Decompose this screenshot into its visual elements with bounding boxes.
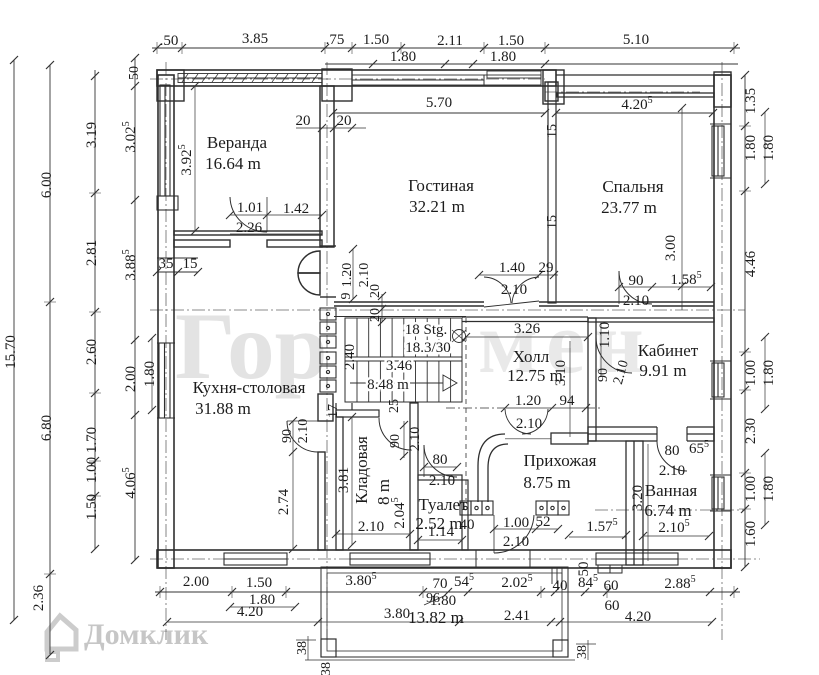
window office right bbox=[710, 361, 731, 399]
svg-text:35: 35 bbox=[159, 256, 174, 272]
svg-text:15: 15 bbox=[545, 215, 560, 229]
wall top right wing bbox=[556, 75, 731, 86]
svg-text:40: 40 bbox=[460, 517, 475, 533]
svg-text:9: 9 bbox=[339, 293, 354, 300]
svg-text:2.00: 2.00 bbox=[183, 574, 209, 590]
svg-text:80: 80 bbox=[665, 443, 680, 459]
wall divider veranda-living x=320 bbox=[320, 86, 334, 247]
svg-text:1.42: 1.42 bbox=[283, 201, 309, 217]
svg-text:2.10: 2.10 bbox=[623, 293, 649, 309]
dim line hall 3.26 bbox=[466, 336, 588, 338]
svg-text:2.40: 2.40 bbox=[342, 344, 358, 370]
svg-text:1.80: 1.80 bbox=[390, 49, 416, 65]
svg-text:90: 90 bbox=[388, 434, 403, 448]
toilet-pantry east wall bbox=[410, 403, 418, 550]
svg-text:Кухня-столовая: Кухня-столовая bbox=[193, 378, 306, 397]
svg-text:9.91 m: 9.91 m bbox=[639, 361, 686, 380]
svg-text:1.80: 1.80 bbox=[490, 49, 516, 65]
svg-text:3.46: 3.46 bbox=[386, 358, 413, 374]
svg-text:Кладовая: Кладовая bbox=[352, 436, 371, 504]
window bottom mid bbox=[350, 553, 430, 565]
dim line kitchen door bbox=[292, 421, 294, 452]
post top wall20 bbox=[322, 69, 352, 101]
axis dashdot wall20 bbox=[326, 62, 328, 640]
dim line pantry 3.81 bbox=[351, 417, 353, 545]
svg-text:Холл: Холл bbox=[513, 347, 550, 366]
svg-text:60: 60 bbox=[604, 578, 619, 594]
svg-text:20: 20 bbox=[337, 113, 352, 129]
dim line right col1 bbox=[744, 75, 746, 567]
svg-text:3.80: 3.80 bbox=[384, 606, 410, 622]
svg-text:2.10: 2.10 bbox=[503, 534, 529, 550]
axis dashdot right wall bbox=[721, 62, 723, 640]
hallway-vestibule boxes row1 bbox=[460, 501, 493, 515]
svg-text:2.10: 2.10 bbox=[429, 473, 455, 489]
svg-text:52: 52 bbox=[536, 514, 551, 530]
door office arc bbox=[596, 337, 632, 373]
dim line veranda door 2.26 bbox=[230, 233, 322, 235]
svg-text:2.81: 2.81 bbox=[84, 240, 100, 266]
svg-text:70: 70 bbox=[433, 576, 448, 592]
office west wall bbox=[588, 318, 596, 441]
post living-bedroom top bbox=[543, 70, 564, 104]
svg-text:90: 90 bbox=[629, 273, 644, 289]
svg-text:3.81: 3.81 bbox=[336, 467, 352, 493]
svg-text:2.10: 2.10 bbox=[659, 463, 685, 479]
watermark Gor bbox=[175, 293, 652, 399]
svg-text:1.80: 1.80 bbox=[743, 135, 759, 161]
svg-text:3.85: 3.85 bbox=[242, 31, 268, 47]
svg-text:50: 50 bbox=[127, 66, 142, 80]
svg-text:6.00: 6.00 bbox=[39, 172, 55, 198]
vestibule door bottom gap bbox=[476, 550, 530, 568]
svg-text:1.35: 1.35 bbox=[743, 88, 759, 114]
svg-text:2.10: 2.10 bbox=[516, 416, 542, 432]
dim ticks 20-20 top bbox=[296, 127, 366, 129]
dim line left col4 bbox=[134, 58, 136, 560]
svg-text:20: 20 bbox=[296, 113, 311, 129]
dim line hall 3.10 bbox=[569, 341, 571, 437]
svg-text:15: 15 bbox=[183, 256, 198, 272]
window kitchen left bbox=[157, 343, 175, 418]
dim line top row1 bbox=[152, 47, 740, 49]
axis dashdot left wall bbox=[165, 62, 167, 640]
window livingroom top band bbox=[352, 75, 484, 85]
hall top boundary bbox=[462, 317, 588, 322]
svg-text:1.10: 1.10 bbox=[597, 322, 613, 348]
svg-text:90: 90 bbox=[280, 429, 295, 443]
svg-text:1.00: 1.00 bbox=[84, 457, 100, 483]
svg-text:2.11: 2.11 bbox=[437, 33, 463, 49]
svg-text:Кабинет: Кабинет bbox=[638, 341, 699, 360]
window bath bottom bbox=[596, 553, 678, 565]
svg-text:4.20: 4.20 bbox=[625, 609, 651, 625]
svg-text:.75: .75 bbox=[326, 32, 345, 48]
svg-text:20: 20 bbox=[368, 308, 383, 322]
svg-text:2.00: 2.00 bbox=[123, 366, 139, 392]
svg-text:Гостиная: Гостиная bbox=[408, 176, 474, 195]
door bedroom arc bbox=[619, 271, 652, 304]
svg-text:1.80: 1.80 bbox=[761, 476, 777, 502]
svg-text:38: 38 bbox=[295, 641, 310, 655]
svg-text:Спальня: Спальня bbox=[602, 177, 663, 196]
svg-text:17: 17 bbox=[326, 404, 341, 418]
wall left outer bbox=[158, 75, 174, 568]
wall bedroom top bbox=[557, 93, 714, 97]
dim line bottom row3 bbox=[167, 621, 712, 623]
svg-text:18.3/30: 18.3/30 bbox=[405, 340, 450, 356]
pantry top stub + door bbox=[336, 403, 379, 417]
dim line vestibule 1.00-52 bbox=[494, 528, 558, 530]
svg-text:2.10: 2.10 bbox=[501, 282, 527, 298]
svg-text:1.80: 1.80 bbox=[142, 361, 158, 387]
svg-text:2.10: 2.10 bbox=[358, 519, 384, 535]
svg-text:3.20: 3.20 bbox=[630, 485, 646, 511]
hallway-vestibule boxes row2 bbox=[536, 501, 569, 515]
svg-text:31.88 m: 31.88 m bbox=[195, 399, 251, 418]
svg-text:1.50: 1.50 bbox=[84, 494, 100, 520]
svg-text:Ванная: Ванная bbox=[645, 481, 698, 500]
svg-text:13.82 m: 13.82 m bbox=[408, 608, 464, 627]
dim line hallway 1.575 bbox=[569, 536, 626, 538]
svg-text:96: 96 bbox=[426, 591, 440, 606]
axis dashdot horizontal mid bbox=[150, 309, 745, 311]
axis dashdot bottom wall bbox=[150, 558, 760, 560]
svg-text:Веранда: Веранда bbox=[207, 133, 268, 152]
svg-text:.50: .50 bbox=[160, 33, 179, 49]
svg-text:1.00: 1.00 bbox=[743, 360, 759, 386]
dim line office door bbox=[600, 322, 602, 377]
double door kitchen leaves bbox=[298, 251, 320, 295]
window veranda top band bbox=[178, 74, 322, 83]
toilet east wall bbox=[462, 480, 468, 550]
svg-text:1.20: 1.20 bbox=[515, 393, 541, 409]
stairs bbox=[345, 318, 466, 402]
window bath right bbox=[710, 475, 731, 511]
bath west wall bbox=[626, 441, 643, 565]
svg-text:4.46: 4.46 bbox=[743, 250, 759, 277]
svg-text:90: 90 bbox=[596, 368, 611, 382]
axis dashdot bath mid bbox=[595, 509, 745, 511]
toilet top wall bbox=[418, 475, 462, 480]
svg-text:38: 38 bbox=[319, 662, 334, 675]
svg-text:3.26: 3.26 bbox=[514, 321, 541, 337]
door toilet arc bbox=[424, 445, 457, 477]
dim line veranda 3.925 bbox=[194, 86, 196, 231]
wall stair west boxes bbox=[320, 308, 336, 392]
svg-text:1.00: 1.00 bbox=[743, 476, 759, 502]
step 35-15 left wall bbox=[153, 258, 202, 276]
wall kitchen east lower bbox=[318, 452, 325, 550]
svg-text:2.36: 2.36 bbox=[31, 584, 47, 611]
svg-text:8.75 m: 8.75 m bbox=[523, 473, 570, 492]
svg-text:25: 25 bbox=[387, 399, 402, 413]
diagonal door living-hall bbox=[484, 277, 539, 307]
dim line veranda door 1.01-1.42 bbox=[230, 214, 322, 216]
dim line left col3 bbox=[94, 70, 96, 549]
svg-text:80: 80 bbox=[433, 452, 448, 468]
svg-text:5.70: 5.70 bbox=[426, 95, 452, 111]
wall veranda bottom bbox=[174, 231, 322, 247]
porch outline bbox=[305, 567, 575, 660]
svg-text:15.70: 15.70 bbox=[3, 335, 19, 369]
dim line left 6.00-6.80-2.36 bbox=[49, 65, 51, 655]
svg-text:1.40: 1.40 bbox=[499, 260, 525, 276]
wall kitchen east upper stub bbox=[318, 394, 333, 421]
wall mid horizontal y302 bbox=[334, 302, 714, 306]
svg-text:18 Stg.: 18 Stg. bbox=[405, 322, 448, 338]
dim line bottom 1.80 bbox=[230, 606, 295, 608]
dim line bath 2.105 bbox=[643, 535, 709, 537]
dim line bath 3.20 bbox=[647, 444, 649, 561]
svg-text:Домклик: Домклик bbox=[84, 618, 209, 651]
dim line 20-20 stairwall vertical bbox=[378, 292, 386, 326]
svg-text:2.60: 2.60 bbox=[84, 339, 100, 365]
dim line 5.70 bbox=[333, 112, 545, 114]
svg-text:60: 60 bbox=[605, 598, 620, 614]
door hall-hallway arcs bbox=[505, 409, 548, 434]
sill living top right bbox=[484, 71, 541, 85]
office top wall bbox=[588, 318, 714, 322]
wall gap lines at double door bbox=[320, 246, 336, 297]
svg-text:94: 94 bbox=[560, 393, 576, 409]
svg-text:5.10: 5.10 bbox=[623, 32, 649, 48]
window veranda left bbox=[157, 85, 178, 210]
svg-text:8.48 m: 8.48 m bbox=[367, 377, 409, 393]
svg-text:1.80: 1.80 bbox=[761, 360, 777, 386]
svg-text:1.50: 1.50 bbox=[498, 33, 524, 49]
svg-text:1.14: 1.14 bbox=[428, 524, 455, 540]
svg-text:2.74: 2.74 bbox=[276, 488, 292, 515]
dim line kitchen 2.74 bbox=[292, 452, 294, 549]
svg-text:23.77 m: 23.77 m bbox=[601, 198, 657, 217]
svg-text:6.80: 6.80 bbox=[39, 415, 55, 441]
wall pantry west bbox=[336, 417, 343, 550]
dim line left 15.70 bbox=[13, 60, 15, 620]
svg-text:4.20: 4.20 bbox=[237, 604, 263, 620]
svg-text:40: 40 bbox=[553, 578, 568, 594]
door kitchen east arc bbox=[287, 421, 318, 452]
post top-left corner bbox=[157, 70, 184, 101]
svg-text:1.50: 1.50 bbox=[363, 32, 389, 48]
post top-right corner bbox=[714, 72, 731, 107]
wall top main bbox=[157, 70, 556, 86]
svg-text:2.10: 2.10 bbox=[408, 427, 423, 452]
svg-text:15: 15 bbox=[545, 124, 560, 138]
dim line right col2 bbox=[764, 112, 766, 525]
office bottom wall bbox=[588, 427, 714, 441]
dim line bottom row1 bbox=[155, 591, 740, 593]
porch steps right bbox=[552, 568, 568, 584]
dim line bedroom door bbox=[619, 286, 711, 288]
dim marks porch 38 bbox=[296, 636, 316, 660]
svg-text:2.26: 2.26 bbox=[236, 220, 263, 236]
svg-text:3.10: 3.10 bbox=[553, 360, 569, 386]
wall living-bedroom bbox=[545, 82, 558, 303]
svg-text:1.01: 1.01 bbox=[237, 200, 263, 216]
svg-text:1.50: 1.50 bbox=[246, 575, 272, 591]
dim line pantry 2.10 bbox=[336, 533, 410, 535]
svg-text:1.70: 1.70 bbox=[84, 427, 100, 453]
dim line bedroom 3.00 bbox=[681, 108, 683, 310]
svg-text:29: 29 bbox=[539, 260, 554, 276]
dim line hall-hallway door bbox=[505, 407, 586, 409]
svg-text:3.19: 3.19 bbox=[84, 122, 100, 148]
svg-text:1.20: 1.20 bbox=[340, 263, 355, 288]
svg-text:2.41: 2.41 bbox=[504, 608, 530, 624]
door vestibule arc bbox=[494, 515, 534, 553]
dim line door 1.20 vertical bbox=[349, 245, 357, 303]
svg-text:32.21 m: 32.21 m bbox=[409, 197, 465, 216]
sill marks bottom bath bbox=[598, 565, 622, 573]
dim line left 1.80 window bbox=[151, 338, 153, 410]
svg-text:2.10: 2.10 bbox=[357, 263, 372, 288]
svg-text:16.64 m: 16.64 m bbox=[205, 154, 261, 173]
svg-text:2.30: 2.30 bbox=[743, 418, 759, 444]
window bedroom right bbox=[710, 124, 731, 178]
door bath gap bbox=[657, 426, 687, 442]
svg-text:1.00: 1.00 bbox=[503, 515, 529, 531]
door pantry arc bbox=[379, 418, 411, 460]
dim line toilet door 80 bbox=[424, 466, 457, 468]
door veranda-kitchen arc bbox=[230, 197, 267, 232]
strikeout mark 96 bbox=[424, 596, 444, 605]
dim line top row2 bbox=[325, 63, 738, 65]
dim line 4.205 bbox=[556, 112, 713, 114]
axis dashdot top wall bbox=[150, 78, 545, 80]
wall bottom outer bbox=[157, 550, 731, 568]
svg-text:38: 38 bbox=[575, 645, 590, 659]
svg-text:1.80: 1.80 bbox=[761, 135, 777, 161]
svg-text:2.10: 2.10 bbox=[296, 419, 311, 444]
svg-text:Туалет: Туалет bbox=[419, 495, 469, 514]
dim line living door 1.40-29 bbox=[479, 274, 558, 276]
svg-text:1.60: 1.60 bbox=[743, 521, 759, 547]
stair well top line bbox=[334, 316, 466, 318]
window kitchen bottom bbox=[224, 553, 287, 565]
svg-text:Прихожая: Прихожая bbox=[524, 451, 597, 470]
hall dashed boundary bbox=[465, 318, 467, 500]
hallway top rounded wall bbox=[478, 433, 588, 502]
svg-text:3.00: 3.00 bbox=[663, 235, 679, 261]
watermark Domklik logo bbox=[47, 616, 76, 660]
wall right outer bbox=[714, 75, 731, 568]
dim line toilet 1.14 bbox=[418, 539, 462, 541]
